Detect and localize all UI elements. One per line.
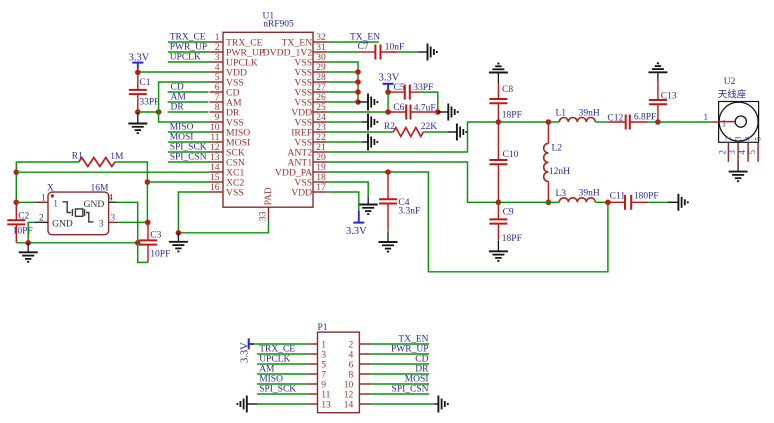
wire VDD_PA loop [327,172,608,272]
ground (pin18) [359,197,378,214]
connector U2 body [719,102,759,143]
U1 pin 20 ANT1 [287,153,326,168]
svg-text:5: 5 [747,150,757,155]
wire C5-C6 left link [387,92,389,112]
svg-text:C12: C12 [607,113,623,123]
P1 pin 10 [344,381,371,391]
svg-text:DR: DR [171,103,185,113]
svg-text:13: 13 [321,401,331,411]
junction C4 top [385,169,391,175]
svg-text:10nF: 10nF [385,42,405,52]
net TRX_CE [168,33,210,43]
svg-text:L3: L3 [556,189,567,199]
U1 pin 19 VDD_PA [275,163,327,178]
svg-text:C2: C2 [18,211,29,221]
svg-text:39nH: 39nH [579,108,600,118]
power 3.3V (P1 pin1) [240,338,255,363]
wire pin29 stub [327,71,358,73]
svg-text:1M: 1M [110,152,124,162]
svg-text:2: 2 [215,43,220,53]
capacitor C7 [360,45,399,60]
wire pin26 stub [327,101,358,103]
junction RF bottom / C9/C10 [496,200,502,206]
svg-text:3.3V: 3.3V [379,73,400,84]
wire pin31 to C7 [327,51,360,53]
svg-text:1: 1 [53,200,58,210]
svg-text:L2: L2 [552,143,563,153]
U1 pin 16 VSS [210,183,244,198]
svg-text:10PF: 10PF [13,226,33,236]
junction VSS bracket [156,109,162,115]
power 3.3V (top-left) [129,52,150,69]
svg-text:P1: P1 [318,323,328,333]
P1 pin 13 [307,401,331,411]
U1 pin 17 VDD [291,183,327,198]
X pin 3 [99,214,118,230]
net DR (P1) [370,365,429,375]
wire C5 right to C6 right [420,92,438,112]
wire C6 to ground [438,111,449,113]
U1 pin 31 DVDD_1V2 [263,43,327,58]
junction C1 bottom [135,109,141,115]
svg-text:UPCLK: UPCLK [259,355,290,365]
svg-text:14: 14 [210,163,220,173]
svg-text:C11: C11 [610,191,626,201]
wire P1 pin13 to ground [257,403,307,405]
svg-text:1: 1 [703,113,708,123]
net SPI_CSN (P1) [370,385,429,395]
wire P1 pin14 to ground [370,403,433,405]
svg-text:12nH: 12nH [549,167,570,177]
wire pin22 VSS to ground [327,141,362,143]
svg-text:6: 6 [215,83,220,93]
svg-text:5: 5 [753,137,763,141]
U1 pin 27 VSS [294,83,326,98]
U2 pin 2 [717,137,733,162]
svg-text:1: 1 [722,119,727,129]
P1 pin 5 [307,361,327,371]
svg-text:17: 17 [316,183,326,193]
wire power to C5 [387,89,389,92]
X pin 2 [35,213,73,229]
net AM (P1) [257,365,307,375]
wire pin17 VDD to power [327,192,359,211]
svg-text:8: 8 [348,371,353,381]
svg-text:27: 27 [316,83,326,93]
U1 pin 25 VDD [291,103,327,118]
wire pin23 IREF to R2 [327,131,393,133]
svg-text:3: 3 [215,53,220,63]
X pin 4 [84,193,117,210]
P1 pin 6 [348,361,370,371]
svg-text:6.8PF: 6.8PF [634,113,656,123]
junction C6 right [435,109,441,115]
ground (P1 left) [237,396,246,413]
U2 pin 4 [737,136,753,162]
svg-text:DR: DR [415,365,429,375]
X pin1 marker [51,194,54,197]
U1 pin 1 TRX_CE [210,33,263,48]
junction L2 top / L1 [546,119,552,125]
svg-text:天线座: 天线座 [718,89,747,101]
svg-text:VSS: VSS [226,187,244,198]
svg-text:10: 10 [344,381,354,391]
U1 pin 22 VSS [294,133,326,148]
wire XC1 rail to pin14 [16,171,209,173]
wire C1 to VSS bracket [138,111,159,113]
ground (C8, up) [489,64,508,84]
wire pin18 VSS to ground [327,182,368,197]
U1 pin 7 AM [210,93,242,108]
capacitor C5 [388,85,420,100]
svg-text:9: 9 [215,113,220,123]
resistor R1 [79,158,115,167]
junction C3 top / XC2 [145,220,151,226]
capacitor C6 [388,105,435,120]
ground (crystal rail) [19,243,38,262]
wire pin1 to crystal [16,201,34,203]
power 3.3V (C5) [379,73,400,90]
svg-text:10PF: 10PF [150,249,170,259]
wire gnd rail [16,242,137,244]
svg-text:15: 15 [210,173,220,183]
net SPI_SCK [168,143,210,153]
power 3.3V (pin17, down) [346,211,367,237]
svg-text:16: 16 [210,183,220,193]
net MOSI [168,133,210,143]
wire VSS pins 5/9 bracket [159,82,210,122]
P1 pin 7 [307,371,327,381]
junction PAD/VSS ground [176,230,182,236]
U2 pin 1 [703,113,726,130]
ground (R2) [457,124,466,141]
P1 pin 4 [348,351,370,361]
svg-text:SPI_SCK: SPI_SCK [259,385,296,395]
svg-text:U2: U2 [724,77,736,87]
svg-text:GND: GND [84,200,105,210]
svg-text:PWR_UP: PWR_UP [170,43,207,53]
junction antenna node [655,119,661,125]
svg-text:4: 4 [348,351,353,361]
P1 pin 1 [307,341,327,351]
svg-text:MISO: MISO [170,123,194,133]
svg-text:C10: C10 [503,150,519,160]
ground (C11) [678,194,687,211]
net CD (P1) [370,355,429,365]
svg-text:6: 6 [348,361,353,371]
junction L3/C11/loop [605,200,611,206]
svg-text:AM: AM [171,93,187,103]
inductor L2 [544,122,549,202]
svg-text:3.3V: 3.3V [129,52,150,63]
junction XC2 rail [145,179,151,185]
svg-text:25: 25 [316,103,326,113]
P1 pin 11 [307,391,331,401]
junction gnd rail / pin4 drop [135,240,141,246]
svg-text:26: 26 [316,93,326,103]
junction VSS chain 28 [355,79,361,85]
wire C7 to ground [399,51,418,53]
U1 pin 8 DR [210,103,240,118]
svg-text:CD: CD [415,355,428,365]
junction C5 left [385,89,391,95]
wire pin24 VSS to ground [327,121,362,123]
svg-text:3.3V: 3.3V [240,342,251,363]
IC U1 nRF905 body [223,32,313,207]
wire RF bottom row [498,201,559,203]
svg-text:L1: L1 [556,109,567,119]
capacitor C10 [489,122,507,202]
svg-text:12: 12 [210,143,220,153]
wire U2 shield to ground [737,161,739,164]
svg-text:4: 4 [215,63,220,73]
wire C11 to ground [648,201,667,203]
junction 3.3V/C1/pin4 [135,70,141,76]
U1 pin 23 IREF [291,123,327,138]
U1 pin 18 VSS [294,173,326,188]
svg-text:24: 24 [316,113,326,123]
ground (C1) [128,112,147,133]
svg-text:SPI_CSN: SPI_CSN [170,153,207,163]
svg-text:7: 7 [321,371,326,381]
wire PAD to ground [178,221,268,233]
net MOSI (P1) [370,375,429,385]
ground (C4) [379,233,398,252]
svg-text:3: 3 [727,150,737,155]
capacitor C9 [489,202,507,241]
capacitor C12 [608,115,648,130]
wire R1 right / XC2 column [115,162,148,222]
P1 pin 12 [344,391,371,401]
U2 pin 3 [727,137,743,162]
svg-text:1: 1 [321,341,326,351]
wire C4 to ground [387,229,389,233]
wire R1 left / XC1 column [16,162,79,202]
svg-text:SPI_CSN: SPI_CSN [392,385,429,395]
net TX_EN (U1) [327,33,380,43]
svg-text:39nH: 39nH [579,189,600,199]
svg-text:C7: C7 [358,42,369,52]
svg-text:4: 4 [737,150,747,155]
svg-text:3: 3 [99,219,104,229]
svg-text:30: 30 [316,53,326,63]
svg-text:C9: C9 [503,207,514,217]
junction gnd rail / ground [25,240,31,246]
ground (PAD) [169,233,188,252]
svg-text:CD: CD [171,83,184,93]
svg-text:3.3nF: 3.3nF [398,207,420,217]
svg-text:PAD: PAD [264,187,274,205]
svg-text:32: 32 [316,33,326,43]
svg-text:20: 20 [316,153,326,163]
wire L1 lead [548,121,559,123]
wire crystal pin4 to C3 bottom [117,202,149,262]
U2 pin 5 [747,137,763,162]
net SPI_CSN [168,153,210,163]
P1 pin 9 [307,381,327,391]
net UPCLK [168,53,210,63]
svg-text:12: 12 [344,391,354,401]
svg-text:31: 31 [316,43,326,53]
svg-text:PWR_UP: PWR_UP [391,345,428,355]
wire antenna node to U2 [658,121,712,123]
svg-text:2: 2 [717,150,727,155]
svg-text:13: 13 [210,153,220,163]
svg-text:X: X [47,184,54,194]
junction RF top / C8 [496,119,502,125]
U1 pin 12 SCK [210,143,245,158]
U1 pin 10 MISO [210,123,251,138]
svg-text:C1: C1 [139,78,150,88]
svg-text:3: 3 [110,214,115,224]
wire VSS pins 30-26 chain [327,62,358,102]
svg-text:C3: C3 [150,230,161,240]
U1 pin 29 VSS [294,63,326,78]
svg-text:5: 5 [215,73,220,83]
wire crystal pin3 to C3 top [118,221,148,223]
svg-text:18PF: 18PF [502,234,522,244]
net CD [168,83,209,93]
capacitor C11 [608,195,648,210]
svg-text:18PF: 18PF [502,110,522,120]
svg-text:AM: AM [259,365,275,375]
svg-text:nRF905: nRF905 [263,20,294,30]
wire P1 pin1 [254,343,307,345]
U1 pin 13 CSN [210,153,245,168]
U1 pin 11 MOSI [210,133,251,148]
svg-text:180PF: 180PF [634,191,659,201]
wire ANT2 to RF top row [327,122,499,152]
U1 pin 3 UPCLK [210,53,258,68]
X pin 1 [35,193,59,209]
resistor R2 [393,128,423,137]
svg-text:10: 10 [210,123,220,133]
U1 pin 4 VDD [210,63,248,78]
net MISO (P1) [257,375,307,385]
connector P1 body [318,332,360,413]
capacitor C13 [649,82,667,123]
capacitor C1 [129,73,147,112]
ground (C6) [448,104,457,121]
svg-text:C8: C8 [502,85,513,95]
svg-text:21: 21 [316,143,326,153]
wire pin27 stub [327,91,358,93]
ground (pin22) [368,134,377,151]
wire XC2 to pin15 [147,181,209,183]
U1 pin 15 XC2 [210,173,245,188]
U1 pin 2 PWR_UP [210,43,265,58]
P1 pin 2 [348,341,370,351]
net TRX_CE (P1) [257,345,307,355]
U1 pin 32 TX_EN [282,33,327,48]
ground (U2) [729,162,748,181]
junction crystal pin1 node [13,200,19,206]
svg-text:C5: C5 [394,83,405,93]
svg-text:23: 23 [316,123,326,133]
wire chain to ground [358,101,368,103]
U1 pin 28 VSS [294,73,326,88]
junction VSS chain 26 [355,99,361,105]
net MISO [168,123,210,133]
U1 pin 14 XC1 [210,163,245,178]
svg-text:33: 33 [259,211,269,221]
wire RF top row C8-L2 [498,121,548,123]
svg-text:MOSI: MOSI [170,133,194,143]
svg-text:3: 3 [733,137,743,141]
svg-text:3: 3 [321,351,326,361]
net PWR_UP (P1) [370,345,429,355]
svg-text:8: 8 [215,103,220,113]
svg-text:2: 2 [723,137,733,141]
junction XC1 rail [13,169,19,175]
U1 pin 5 VSS [210,73,244,88]
U1 pin 30 VSS [294,53,326,68]
junction C6 left [385,109,391,115]
svg-text:R2: R2 [384,122,395,132]
net SPI_SCK (P1) [257,385,307,395]
svg-text:18: 18 [316,173,326,183]
svg-text:11: 11 [210,133,219,143]
wire pin16 VSS down [178,192,209,233]
wire pin25 VDD to C6 [327,111,388,113]
svg-text:MOSI: MOSI [405,375,429,385]
net AM [168,93,209,103]
svg-text:4.7uF: 4.7uF [414,103,436,113]
svg-text:7: 7 [215,93,220,103]
svg-text:33PF: 33PF [139,97,159,107]
svg-text:9: 9 [321,381,326,391]
wire crystal pin2 to gnd rail [28,222,34,243]
net UPCLK (P1) [257,355,307,365]
svg-text:R1: R1 [72,151,83,161]
svg-text:11: 11 [321,391,330,401]
capacitor C2 [7,202,25,243]
wire C12 to antenna node [648,121,658,123]
svg-text:C6: C6 [393,103,404,113]
svg-text:4: 4 [108,193,113,203]
svg-text:TRX_CE: TRX_CE [259,345,295,355]
svg-text:22K: 22K [421,122,438,132]
ground (C13, up) [648,63,667,81]
svg-text:GND: GND [52,220,73,230]
svg-text:16M: 16M [91,184,110,194]
ground (P1 right) [438,396,447,413]
wire L1 to C12 [595,121,608,123]
svg-text:2: 2 [348,341,353,351]
svg-text:28: 28 [316,73,326,83]
crystal symbol [63,202,94,222]
svg-text:29: 29 [316,63,326,73]
P1 pin 3 [307,351,327,361]
junction VSS chain 29 [355,69,361,75]
crystal X body [48,192,109,235]
U1 pin 9 VSS [210,113,244,128]
capacitor C3 [139,222,157,262]
ground (C7) [428,44,437,61]
wire L3 to C11 [595,201,608,203]
svg-text:22: 22 [316,133,326,143]
ground (C9) [489,241,508,261]
inductor L3 [559,198,595,203]
U1 pin 21 ANT2 [287,143,326,158]
svg-text:UPCLK: UPCLK [170,53,201,63]
svg-text:SPI_SCK: SPI_SCK [170,143,207,153]
svg-text:19: 19 [316,163,326,173]
svg-text:TRX_CE: TRX_CE [170,33,206,43]
wire ANT1 to RF bottom row [327,162,499,202]
junction VSS chain 27 [355,89,361,95]
svg-text:3.3V: 3.3V [346,226,367,237]
